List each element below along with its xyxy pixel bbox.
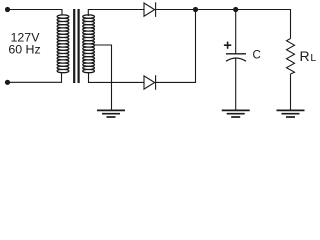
transformer T1 primary winding (57, 15, 69, 73)
terminal dot top-left input (5, 7, 10, 12)
capacitor C plus sign (224, 42, 231, 49)
wire D2 cathode up to top rail (156, 10, 196, 83)
capacitor C plates (226, 54, 246, 61)
diode D1 top (144, 2, 156, 17)
svg-text:60 Hz: 60 Hz (8, 42, 40, 56)
terminal dot bottom-left input (5, 80, 10, 85)
diode D2 bottom (144, 75, 156, 90)
svg-text:RL: RL (300, 48, 317, 64)
wire center tap to ground (95, 45, 112, 110)
wire resistor to ground (290, 74, 292, 110)
node junction dot A (193, 7, 198, 12)
transformer T1 secondary winding (83, 15, 95, 73)
wire top rail to resistor (156, 10, 291, 39)
wire secondary top lead (88, 10, 144, 17)
ground G3 below resistor (277, 110, 305, 117)
wire primary top lead (8, 10, 63, 17)
wire capacitor top drop (235, 10, 237, 54)
ground G2 below capacitor (222, 110, 250, 117)
wire primary bottom lead (8, 73, 62, 82)
transformer T1 core (74, 9, 78, 83)
ground G1 center tap (97, 110, 125, 117)
wire secondary bottom lead (89, 73, 145, 82)
resistor RL (287, 39, 295, 75)
node junction dot B (233, 7, 238, 12)
label 127V 60 Hz (8, 30, 40, 56)
wire capacitor to ground (235, 58, 237, 110)
svg-text:C: C (253, 49, 261, 61)
